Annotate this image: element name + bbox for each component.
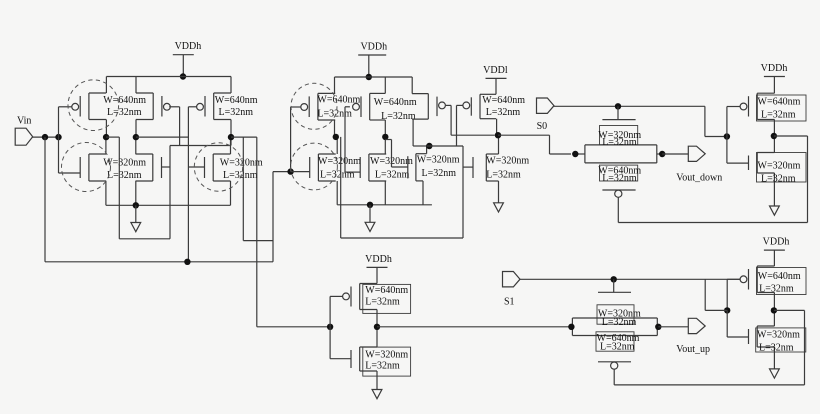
transistor N3 (NMOS W=320nm) bbox=[205, 154, 231, 181]
svg-text:W=640nm: W=640nm bbox=[103, 95, 146, 106]
svg-text:L=32nm: L=32nm bbox=[602, 173, 637, 184]
ground inverter1 bbox=[770, 173, 780, 215]
svg-text:W=320nm: W=320nm bbox=[486, 156, 529, 167]
node A bbox=[103, 134, 109, 140]
wire M2a source to VDD bbox=[334, 77, 336, 93]
node S1bar bbox=[771, 307, 777, 313]
label N1 W=320nm L=32nm bbox=[103, 158, 146, 182]
node TG2 in bbox=[568, 324, 574, 330]
svg-text:L=32nm: L=32nm bbox=[375, 170, 410, 181]
marker circle around M2a bbox=[291, 83, 337, 129]
node inv3 input bbox=[327, 324, 333, 330]
svg-text:L=32nm: L=32nm bbox=[365, 297, 400, 308]
svg-text:L=32nm: L=32nm bbox=[107, 107, 142, 118]
input port S1 bbox=[503, 272, 521, 308]
svg-text:L=32nm: L=32nm bbox=[486, 170, 521, 181]
power VDDh inverter2 bbox=[763, 237, 790, 266]
svg-text:L=32nm: L=32nm bbox=[602, 137, 637, 148]
wire M2c drain to node E bbox=[413, 119, 427, 146]
wire M4 drain to node B bbox=[230, 120, 232, 138]
svg-text:L=32nm: L=32nm bbox=[320, 170, 355, 181]
wire Vin bottom rail bbox=[45, 137, 273, 262]
transistor INV2 NMOS (W=320nm) bbox=[749, 326, 775, 347]
wire N2 source to ground rail bbox=[135, 181, 137, 205]
wire lower stage input bbox=[257, 326, 330, 328]
transistor TG2 PMOS gate bbox=[598, 362, 631, 369]
transistor M3 (PMOS cross-coupled) bbox=[136, 93, 170, 120]
svg-text:L=32nm: L=32nm bbox=[600, 341, 635, 352]
transistor M2c (PMOS cross-coupled) bbox=[412, 94, 445, 120]
svg-text:W=640nm: W=640nm bbox=[758, 271, 801, 282]
transistor N2b (NMOS W=320nm) bbox=[360, 154, 386, 181]
transistor M2d (PMOS W=640nm, VDDl) bbox=[463, 94, 496, 118]
svg-text:L=32nm: L=32nm bbox=[317, 109, 352, 120]
wire to Vout_down bbox=[662, 153, 688, 155]
label INV3 NMOS W=320nm L=32nm bbox=[363, 347, 411, 376]
power VDDh block2 bbox=[358, 42, 387, 78]
wire N3 source to ground rail bbox=[230, 181, 232, 205]
power VDDh inverter1 bbox=[761, 63, 788, 93]
svg-text:W=640nm: W=640nm bbox=[374, 97, 417, 108]
wire S0bar feedback loop bbox=[618, 136, 807, 223]
svg-text:L=32nm: L=32nm bbox=[486, 107, 521, 118]
wire M3 gate to node B bbox=[169, 107, 179, 146]
label INV3 PMOS W=640nm L=32nm bbox=[363, 284, 411, 313]
svg-text:L=32nm: L=32nm bbox=[422, 168, 457, 179]
label M1 W=640nm L=32nm bbox=[103, 95, 146, 118]
node bottom rail junction bbox=[184, 259, 190, 265]
svg-text:S1: S1 bbox=[504, 297, 515, 308]
svg-text:W=640nm: W=640nm bbox=[482, 95, 525, 106]
node B bbox=[228, 134, 234, 140]
wire S1 line bbox=[520, 278, 741, 280]
wire inv3 output to pass gate bbox=[377, 326, 571, 328]
transistor M2d gate wire bbox=[457, 105, 464, 146]
transistor TG1 PMOS channel bbox=[585, 154, 657, 163]
ground block2 bbox=[365, 205, 375, 232]
wire node A feedback U-route bbox=[119, 137, 170, 239]
transistor N2a (NMOS W=320nm) bbox=[310, 154, 336, 181]
node inv3 output bbox=[374, 324, 380, 330]
wire block2 input node bbox=[273, 171, 291, 173]
wire M1 source to VDD bbox=[105, 77, 107, 94]
node F bbox=[495, 132, 501, 138]
svg-text:W=320nm: W=320nm bbox=[417, 155, 460, 166]
svg-text:VDDl: VDDl bbox=[483, 65, 508, 76]
node D bbox=[382, 134, 388, 140]
svg-text:Vout_down: Vout_down bbox=[676, 172, 722, 183]
label M2a W=640nm L=32nm bbox=[317, 95, 360, 120]
svg-text:L=32nm: L=32nm bbox=[381, 111, 416, 122]
wire node B down to lower stage bbox=[256, 137, 258, 327]
label N2d W=320nm L=32nm bbox=[486, 156, 529, 181]
label TG2 PMOS W=640nm L=32nm bbox=[596, 332, 640, 353]
transistor INV1 NMOS gate wire bbox=[727, 137, 749, 164]
transistor INV3 PMOS (W=640nm) bbox=[343, 284, 377, 310]
wire N2c source to ground rail bbox=[422, 181, 424, 205]
transistor M2b gate wire bbox=[345, 107, 350, 172]
svg-text:W=320nm: W=320nm bbox=[757, 330, 800, 341]
label M2b W=640nm L=32nm bbox=[374, 97, 417, 122]
wire M2b source to VDD bbox=[384, 77, 386, 93]
transistor N2d gate wire bbox=[463, 166, 473, 168]
wire N2b source to ground rail bbox=[384, 181, 386, 205]
svg-text:Vout_up: Vout_up bbox=[676, 344, 710, 355]
svg-text:L=32nm: L=32nm bbox=[759, 284, 794, 295]
transistor TG1 NMOS gate bbox=[602, 106, 635, 119]
wire S0 to inverter input bbox=[705, 106, 727, 136]
wire M4-N3 gate column bbox=[187, 107, 189, 262]
wire M3 drain down bbox=[135, 120, 137, 138]
wire INV2 PMOS drain bbox=[773, 293, 775, 311]
label TG1 PMOS W=640nm L=32nm bbox=[598, 165, 641, 184]
transistor M1 gate wire bbox=[59, 107, 72, 137]
transistor M2a (PMOS W=640nm) bbox=[301, 93, 335, 120]
ground inverter3 bbox=[372, 371, 382, 399]
node VDDh2 junction bbox=[366, 74, 372, 80]
wire M2c source to VDD bbox=[411, 77, 413, 94]
wire inverter2 input loop bbox=[705, 279, 727, 310]
transistor M1 (PMOS W=640nm) bbox=[72, 93, 106, 120]
ground block1 bbox=[131, 205, 141, 231]
label N2a W=320nm L=32nm bbox=[318, 156, 361, 181]
transistor N2 (NMOS cross-coupled) bbox=[136, 154, 162, 181]
label N2c W=320nm L=32nm bbox=[417, 155, 460, 180]
svg-text:L=32nm: L=32nm bbox=[223, 170, 258, 181]
label INV2 NMOS W=320nm L=32nm bbox=[756, 328, 806, 354]
node inverter1 input bbox=[724, 133, 730, 139]
transistor INV3 NMOS (W=320nm) bbox=[351, 347, 377, 371]
marker circle around N2a bbox=[291, 143, 338, 190]
wire node B branch bbox=[243, 137, 273, 241]
wire S1bar feedback loop bbox=[614, 310, 804, 385]
input port Vin bbox=[15, 116, 33, 146]
wire VDD rail block2 bbox=[335, 76, 413, 78]
svg-text:W=320nm: W=320nm bbox=[318, 156, 361, 167]
transistor INV2 NMOS gate wire bbox=[727, 310, 748, 337]
svg-text:L=32nm: L=32nm bbox=[761, 110, 796, 121]
marker circle around N3 bbox=[194, 143, 242, 191]
wire M3 source to VDD bbox=[135, 77, 137, 94]
svg-text:L=32nm: L=32nm bbox=[761, 174, 796, 185]
node ground tap block1 bbox=[133, 202, 139, 208]
wire node B to output column bbox=[231, 136, 257, 138]
label INV1 NMOS W=320nm L=32nm bbox=[757, 153, 807, 185]
transistor TG1 PMOS gate bbox=[602, 190, 635, 197]
output port Vout_up bbox=[676, 318, 710, 355]
transistor INV3 NMOS gate wire bbox=[330, 327, 351, 359]
node TG1 in bbox=[572, 151, 578, 157]
wire N1 source to ground rail bbox=[105, 181, 107, 205]
transistor M2b (PMOS W=640nm) bbox=[353, 93, 386, 120]
wire TG2 PMOS gate stem bbox=[613, 369, 615, 385]
transistor INV1 NMOS (W=320nm) bbox=[749, 153, 775, 174]
wire N2c drain to node E bbox=[426, 146, 428, 154]
wire N2d drain to node F bbox=[498, 135, 500, 154]
transistor N1 gate wire bbox=[59, 137, 81, 173]
transistor M2a gate wire bbox=[291, 107, 301, 172]
transistor INV3 PMOS gate wire bbox=[330, 296, 343, 326]
power VDDh inverter3 bbox=[365, 254, 392, 284]
transistor TG2 NMOS channel bbox=[572, 318, 657, 327]
transistor INV1 PMOS gate wire bbox=[727, 107, 741, 137]
label INV2 PMOS W=640nm L=32nm bbox=[757, 268, 807, 295]
wire M2c gate to node F bbox=[446, 105, 495, 135]
node inverter2 input bbox=[724, 307, 730, 313]
svg-text:VDDh: VDDh bbox=[365, 254, 392, 265]
svg-text:L=32nm: L=32nm bbox=[365, 361, 400, 372]
svg-text:L=32nm: L=32nm bbox=[219, 107, 254, 118]
transistor INV2 PMOS (W=640nm) bbox=[740, 266, 774, 293]
wire node E to M2d gate bbox=[427, 145, 463, 147]
wire N3 drain to node B bbox=[230, 137, 232, 154]
transistor M4 gate wire bbox=[188, 106, 197, 108]
wire INV3 NMOS drain bbox=[376, 327, 378, 347]
transistor N3 gate wire bbox=[188, 166, 204, 168]
wire M2d drain to node F bbox=[496, 119, 498, 136]
wire ground rail block1 bbox=[106, 204, 231, 206]
transistor TG1 NMOS channel bbox=[575, 145, 662, 154]
wire M2b drain to node D bbox=[384, 120, 386, 137]
wire M4 source to VDD bbox=[230, 77, 232, 94]
svg-text:W=640nm: W=640nm bbox=[758, 97, 801, 108]
label TG1 NMOS W=320nm L=32nm bbox=[598, 126, 641, 149]
ground N2d bbox=[494, 181, 504, 212]
node TG2 out bbox=[655, 324, 661, 330]
wire ground rail block2 bbox=[337, 204, 432, 206]
wire TG1 PMOS gate stem bbox=[617, 197, 619, 222]
ground inverter2 bbox=[770, 347, 780, 378]
node block2 input bbox=[287, 168, 293, 174]
wire INV1 NMOS drain bbox=[773, 136, 775, 153]
transistor N1 (NMOS W=320nm) bbox=[80, 154, 106, 181]
transistor M4 (PMOS W=640nm) bbox=[197, 93, 231, 120]
wire INV1 PMOS drain bbox=[773, 120, 775, 137]
transistor N2a gate wire bbox=[291, 171, 310, 173]
node Vin gate tap bbox=[55, 134, 61, 140]
transistor INV2 PMOS bubble lead bbox=[727, 278, 740, 280]
wire N2a source to ground rail bbox=[336, 181, 338, 205]
node M3-N2 drain junction bbox=[133, 134, 139, 140]
node Vin tap bbox=[42, 134, 48, 140]
wire mid rail to cross vertical bbox=[136, 136, 189, 138]
node ground tap block2 bbox=[367, 202, 373, 208]
wire S0 line bbox=[554, 105, 705, 107]
svg-text:L=32nm: L=32nm bbox=[602, 317, 637, 328]
wire N2b drain to node D bbox=[384, 137, 386, 154]
svg-text:L=32nm: L=32nm bbox=[107, 170, 142, 181]
label TG2 NMOS W=320nm L=32nm bbox=[597, 305, 641, 328]
wire N2 gate stub bbox=[162, 166, 171, 168]
node C bbox=[333, 134, 339, 140]
wire INV2 NMOS drain bbox=[773, 310, 775, 326]
transistor TG2 PMOS channel bbox=[572, 327, 657, 336]
label N2b W=320nm L=32nm bbox=[370, 156, 413, 181]
wire M2a drain to node C bbox=[334, 120, 336, 137]
svg-text:VDDh: VDDh bbox=[360, 42, 387, 53]
svg-text:W=320nm: W=320nm bbox=[365, 350, 408, 361]
wire node F to pass gate bbox=[498, 135, 571, 154]
svg-text:VDDh: VDDh bbox=[761, 63, 788, 74]
marker circle around N1 bbox=[62, 143, 111, 192]
wire INV3 PMOS drain bbox=[376, 310, 378, 327]
svg-text:VDDh: VDDh bbox=[763, 237, 790, 248]
label M2d W=640nm L=32nm bbox=[482, 95, 525, 118]
wire to Vout_up bbox=[658, 326, 688, 328]
power VDDl bbox=[483, 65, 508, 94]
svg-text:W=320nm: W=320nm bbox=[758, 161, 801, 172]
node VDDh1 junction bbox=[180, 73, 186, 79]
marker circle around M1 bbox=[68, 80, 119, 131]
node S1 gate tap bbox=[611, 276, 617, 282]
svg-text:Vin: Vin bbox=[17, 116, 31, 127]
transistor N2d (NMOS W=320nm) bbox=[473, 154, 499, 181]
wire node A stub bbox=[106, 136, 119, 138]
label M4 W=640nm L=32nm bbox=[215, 95, 258, 118]
node S0 gate tap bbox=[615, 103, 621, 109]
wire S1 to inverter input bbox=[726, 279, 728, 310]
node E bbox=[426, 143, 432, 149]
svg-text:W=640nm: W=640nm bbox=[215, 95, 258, 106]
input port S0 bbox=[537, 98, 555, 132]
node S0bar bbox=[771, 133, 777, 139]
output port Vout_down bbox=[676, 146, 722, 183]
wire node C feedback U-route bbox=[341, 137, 463, 238]
wire Vin to gates bbox=[33, 136, 59, 138]
transistor N2c (NMOS W=320nm) bbox=[408, 154, 427, 181]
label INV1 PMOS W=640nm L=32nm bbox=[757, 95, 807, 121]
svg-text:VDDh: VDDh bbox=[175, 41, 202, 52]
svg-text:W=640nm: W=640nm bbox=[365, 285, 408, 296]
transistor INV1 PMOS (W=640nm) bbox=[740, 93, 774, 119]
transistor N2b gate wire bbox=[345, 171, 360, 173]
power VDDh block1 bbox=[173, 41, 201, 76]
wire N2a drain to node C bbox=[336, 137, 338, 154]
svg-text:S0: S0 bbox=[537, 121, 548, 132]
svg-text:L=32nm: L=32nm bbox=[759, 343, 794, 354]
label N3 W=320nm L=32nm bbox=[220, 158, 263, 182]
wire M1 drain to node A bbox=[105, 120, 107, 138]
wire N2 drain up bbox=[135, 137, 137, 154]
wire VDD rail block1 bbox=[106, 76, 231, 78]
transistor TG2 NMOS gate bbox=[598, 279, 631, 292]
wire N1 drain to node A bbox=[105, 137, 107, 154]
transistor N2c gate wire bbox=[385, 140, 408, 168]
wire cross-coupling node B rail bbox=[170, 137, 231, 145]
node TG1 out bbox=[659, 151, 665, 157]
